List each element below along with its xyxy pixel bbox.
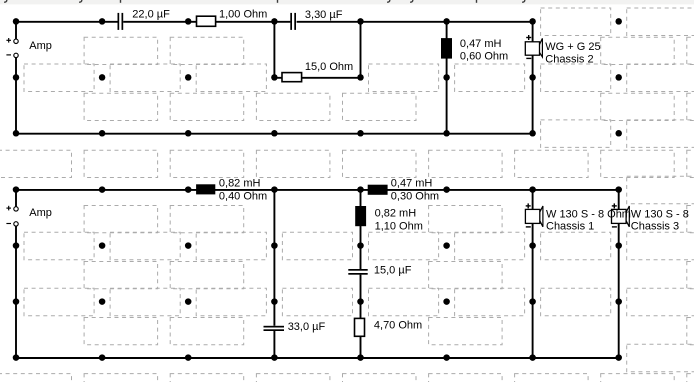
wire: circuit1 top bus, C1 through R1 to node B <box>123 21 290 23</box>
inductor L2 0,82 mH (series, horizontal) <box>196 184 215 194</box>
junction dots: circuit1 top bus <box>13 18 536 25</box>
inductor L4 value label <box>375 208 423 233</box>
inductor L1 value label <box>460 38 508 63</box>
speaker SP2 W 130 S Chassis 1 <box>525 206 543 227</box>
svg-text:15,0 µF: 15,0 µF <box>374 265 412 277</box>
amp AMP1 plus sign <box>6 38 11 43</box>
speaker SP2 plus sign <box>526 203 531 208</box>
wire: parallel RC branch right leg <box>360 21 362 77</box>
wire: series shunt branch lower leg (under R5) <box>360 275 362 358</box>
resistor R1 1,00 Ohm <box>197 16 216 26</box>
svg-text:Amp: Amp <box>29 40 52 52</box>
speaker SP3 plus sign <box>612 203 617 208</box>
svg-text:Chassis 1: Chassis 1 <box>546 221 594 233</box>
svg-text:0,82 mH: 0,82 mH <box>219 178 261 190</box>
inductor L4 0,82 mH (shunt, vertical) <box>355 206 366 226</box>
speaker SP3 minus sign <box>612 226 617 228</box>
speaker SP3 W 130 S Chassis 3 <box>612 206 630 227</box>
amp AMP2 plus sign <box>6 206 11 211</box>
amp AMP1 minus sign <box>6 54 11 56</box>
svg-text:WG + G 25: WG + G 25 <box>545 41 600 53</box>
svg-text:0,40 Ohm: 0,40 Ohm <box>219 191 267 203</box>
resistor R5 4,70 Ohm (vertical) <box>355 318 365 336</box>
capacitor C2 3,30 uF plates <box>290 13 296 30</box>
svg-text:Chassis 2: Chassis 2 <box>545 54 593 66</box>
wire: circuit1 bottom return bus <box>16 133 533 135</box>
wire: amp2 negative lead down to bottom bus <box>15 226 17 357</box>
speaker SP1 minus sign <box>526 57 531 59</box>
amp AMP2 minus sign <box>6 223 11 225</box>
junction dots: circuit2 top bus <box>13 186 622 193</box>
svg-text:W 130 S - 8: W 130 S - 8 <box>631 208 689 220</box>
inductor L1 0,47 mH (vertical) <box>441 38 452 59</box>
svg-text:Chassis 3: Chassis 3 <box>631 221 679 233</box>
wire: parallel branch bottom run under R2 <box>274 77 360 79</box>
wire: circuit1 top bus, amp1 + to capacitor C1 <box>16 21 118 23</box>
svg-text:1,10 Ohm: 1,10 Ohm <box>375 221 423 233</box>
capacitor C1 22,0 uF plates <box>118 13 124 30</box>
inductor L3 0,47 mH (series, horizontal) <box>368 185 388 195</box>
svg-text:0,47 mH: 0,47 mH <box>391 178 433 190</box>
svg-text:1,00 Ohm: 1,00 Ohm <box>219 9 267 21</box>
wire: amp1 positive lead <box>15 21 17 39</box>
junction dots: circuit2 bottom bus <box>13 354 622 361</box>
wire: shunt inductor L1 leg <box>446 21 448 133</box>
wire: speaker SP1 leg <box>532 21 534 133</box>
junction dots: circuit1 middle row <box>13 74 536 81</box>
speaker SP1 label <box>545 41 600 65</box>
svg-text:0,82 mH: 0,82 mH <box>375 208 417 220</box>
svg-text:3,30 µF: 3,30 µF <box>305 9 343 21</box>
wire: series shunt branch upper leg (under L4) <box>360 190 362 270</box>
svg-text:Amp: Amp <box>29 207 52 219</box>
speaker SP3 label <box>631 208 689 232</box>
wire: circuit2 top bus (under L2 and L3) <box>16 189 619 191</box>
capacitor C4 33,0 uF plates <box>264 326 285 331</box>
junction dots: circuit2 row 245 <box>13 242 622 249</box>
junction dots: circuit2 row 301 <box>13 298 622 305</box>
speaker SP2 label <box>546 208 631 232</box>
speaker SP1 plus sign <box>526 35 531 40</box>
resistor R2 15,0 Ohm <box>282 73 302 82</box>
amp AMP2 terminals <box>14 207 18 226</box>
svg-text:4,70 Ohm: 4,70 Ohm <box>374 320 422 332</box>
wire: circuit2 bottom return bus <box>16 357 619 359</box>
svg-text:0,30 Ohm: 0,30 Ohm <box>391 191 439 203</box>
svg-text:15,0 Ohm: 15,0 Ohm <box>305 61 353 73</box>
svg-text:22,0 µF: 22,0 µF <box>132 9 170 21</box>
wire: circuit1 top bus, capacitor C2 to speaker branch <box>297 21 533 23</box>
amp AMP1 terminals <box>14 39 18 58</box>
wire: speaker SP2 leg <box>532 190 534 358</box>
svg-text:0,60 Ohm: 0,60 Ohm <box>460 50 508 62</box>
inductor L3 value label <box>391 178 439 203</box>
wire: parallel RC branch left leg <box>273 21 275 77</box>
wire: amp2 positive lead <box>15 190 17 207</box>
svg-text:0,47 mH: 0,47 mH <box>460 38 502 50</box>
svg-text:33,0 µF: 33,0 µF <box>288 321 326 333</box>
wire: shunt branch with C4, lower leg <box>273 331 275 358</box>
svg-text:W 130 S - 8 Ohm: W 130 S - 8 Ohm <box>546 208 631 220</box>
wire: shunt branch with C4, upper leg <box>273 190 275 326</box>
speaker SP2 minus sign <box>526 226 531 228</box>
speaker SP1 WG + G 25 Chassis 2 <box>525 38 542 57</box>
inductor L2 value label <box>219 178 267 203</box>
junction dots: circuit1 bottom bus <box>13 130 536 137</box>
capacitor C5 15,0 uF plates <box>348 269 367 275</box>
wire: speaker SP3 leg <box>618 190 620 358</box>
wire: amp1 negative lead down to bottom bus <box>15 58 17 134</box>
